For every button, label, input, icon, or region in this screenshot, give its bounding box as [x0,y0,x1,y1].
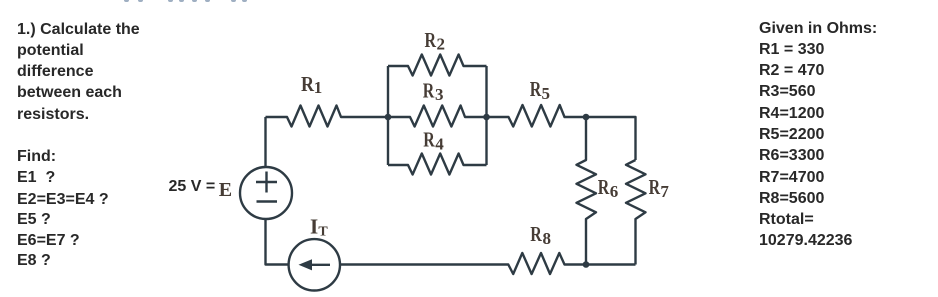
svg-text:7: 7 [660,182,669,201]
svg-text:2: 2 [437,35,446,54]
svg-text:R: R [301,74,315,97]
svg-text:1: 1 [314,78,323,97]
svg-text:R: R [425,29,437,53]
svg-text:R: R [423,128,435,152]
svg-text:R: R [530,223,542,247]
svg-text:E: E [219,179,232,201]
svg-text:3: 3 [435,85,444,104]
svg-text:T: T [318,224,328,239]
svg-text:R: R [649,176,661,200]
svg-text:5: 5 [542,84,551,103]
svg-text:R: R [530,78,542,102]
svg-text:R: R [423,79,435,103]
svg-text:8: 8 [543,229,552,248]
svg-text:I: I [310,214,318,238]
svg-text:6: 6 [610,182,619,201]
svg-text:R: R [598,176,610,200]
svg-text:4: 4 [435,134,444,153]
